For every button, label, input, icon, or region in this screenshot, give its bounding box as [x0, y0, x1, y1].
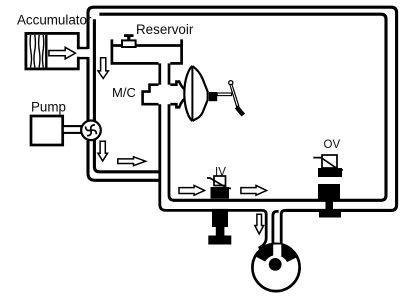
wire outer left side (above accumulator joint)	[88, 7, 94, 49]
IV valve body on line	[211, 187, 230, 199]
pad slot (pipe entry)	[273, 245, 281, 257]
OV valve body on line	[318, 184, 340, 199]
accumulator spring hatching	[30, 35, 46, 68]
master cylinder output channel P and Q	[160, 104, 263, 210]
pump circle	[81, 121, 101, 141]
pedal pivot	[229, 81, 233, 85]
booster U1	[184, 66, 207, 121]
IV valve icon	[214, 176, 226, 186]
arrow right (out of IV)	[241, 185, 267, 195]
pushrod block	[209, 92, 217, 101]
reservoir tank	[111, 39, 183, 63]
tank bottom right + right wall	[170, 39, 181, 63]
wheel brake pipe right wall (to bottom line)	[281, 210, 290, 244]
OV flange	[319, 211, 341, 218]
wire outer left side (below accumulator joint) to pump corner and H2 run	[88, 57, 159, 180]
arrow in accumulator	[49, 47, 76, 59]
pump shaft	[63, 126, 82, 133]
wire inner loop: top edge and right side	[99, 14, 386, 200]
wheel brake pipe inner left wall	[273, 211, 279, 244]
pedal arm	[230, 84, 239, 106]
wheel hub dot	[269, 258, 282, 271]
wire outer loop: top edge, left side, right side, bottom line	[88, 7, 397, 210]
svg-text:M/C: M/C	[112, 85, 136, 100]
wire outer top edge	[94, 7, 397, 210]
wire inner left side down to H1 run	[94, 19, 159, 172]
IV foot	[208, 236, 231, 245]
brake pads (annular band across top)	[254, 243, 298, 262]
booster left shell	[184, 66, 192, 121]
arrow right (into IV)	[179, 185, 205, 195]
accumulator connection stubs	[78, 48, 88, 58]
svg-text:Reservoir: Reservoir	[136, 22, 194, 37]
svg-text:Accumulator: Accumulator	[17, 13, 92, 28]
pump motor box	[31, 116, 63, 145]
tank top line right of cap	[136, 44, 183, 47]
IV lower block	[212, 209, 228, 227]
arrow down (to wheel)	[255, 214, 264, 234]
svg-text:OV: OV	[324, 139, 341, 151]
svg-text:Pump: Pump	[31, 100, 66, 115]
OV valve icon	[322, 155, 337, 168]
pedal pad	[235, 105, 245, 116]
arrow down (accumulator to pump flow)	[98, 58, 108, 79]
booster right shell	[192, 66, 207, 121]
arrow down (pump output)	[98, 141, 108, 161]
arrow right (to M/C junction)	[118, 157, 146, 166]
reservoir outlet channel to M/C	[160, 63, 169, 84]
OV stem	[326, 199, 334, 211]
master cylinder body	[143, 82, 185, 108]
booster diaphragm line	[191, 67, 193, 121]
IV neck	[216, 227, 225, 236]
wheel circle	[252, 244, 299, 291]
pump impeller	[86, 125, 97, 136]
tank top line left of cap	[111, 44, 122, 47]
pushrod	[217, 93, 231, 96]
accumulator box	[26, 33, 78, 69]
wheel brake pipe left wall (from bottom line)	[259, 210, 267, 248]
accumulator right wall gap (opening to stubs)	[76, 49, 80, 56]
tank left wall	[112, 39, 159, 63]
OV solenoid bar	[318, 168, 342, 177]
reservoir cap	[122, 40, 136, 47]
